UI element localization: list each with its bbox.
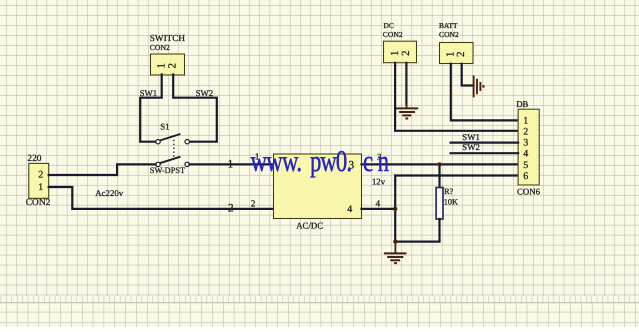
wire: AC/DC pin 4 to junction [362, 208, 396, 210]
svg-text:6: 6 [523, 171, 528, 182]
ground symbol (DC) [396, 104, 418, 119]
wire net SW2: SWITCH pin2 down-right to S1 upper pole [173, 75, 217, 142]
svg-text:2: 2 [251, 199, 256, 209]
pin number 3 (AC/DC, inside body) [348, 160, 354, 172]
net label 12v [372, 177, 386, 187]
net label Ac220v [95, 188, 123, 198]
svg-text:SW2: SW2 [196, 88, 214, 98]
wire: S1 lower pole to AC/DC pin 1 [189, 163, 273, 165]
switch S1 upper lever [160, 134, 181, 141]
connector SWITCH CON2 [150, 33, 186, 75]
connector DB CON6 part label [517, 187, 541, 197]
wire: DC pin1 to DB pin2 [395, 63, 518, 131]
pin number 1 (SWITCH CON2, rotated) [156, 63, 168, 69]
svg-text:SW2: SW2 [462, 142, 480, 152]
wire: DC pin2 to ground [405, 63, 407, 105]
wire: resistor R? bottom lead to ground node [395, 219, 439, 242]
module AC/DC label [296, 221, 323, 231]
svg-text:CON6: CON6 [517, 187, 541, 197]
switch S1 lower lever [160, 157, 181, 164]
svg-text:SWITCH: SWITCH [150, 33, 186, 43]
svg-text:2: 2 [38, 170, 43, 181]
resistor designator R? [444, 187, 453, 196]
connector DB CON6 designator [516, 99, 528, 109]
wire: DB pin 6 net, vertical to ground node [395, 176, 518, 242]
wire: 220 CON2 pin2 to S1 lower pole [49, 164, 156, 175]
wire net 12v: AC/DC pin 3 to DB pin 5 [362, 163, 519, 165]
connector DC CON2 designator [384, 21, 394, 30]
switch S1 designator [160, 122, 169, 132]
switch S1 upper pole contacts [156, 140, 190, 144]
pin number 2 (DC CON2, rotated) [400, 50, 412, 56]
svg-text:R?: R? [444, 187, 453, 196]
watermark www. pw0. cn [250, 145, 388, 178]
svg-text:1: 1 [228, 159, 234, 171]
pin number 3 (AC/DC, on wire) [377, 153, 382, 163]
net label SW2 [196, 88, 214, 98]
svg-text:2: 2 [167, 63, 179, 69]
connector BATT CON2 part label [439, 30, 459, 39]
svg-text:CON2: CON2 [383, 30, 403, 39]
net label SW1 (at DB) [462, 132, 480, 142]
svg-text:12v: 12v [372, 177, 386, 187]
pin number 1 (BATT CON2, rotated) [445, 52, 457, 58]
svg-text:220: 220 [27, 154, 41, 164]
switch S1 lower pole contacts [156, 162, 190, 166]
wire: resistor R? top lead [438, 164, 440, 187]
svg-text:SW1: SW1 [140, 88, 158, 98]
pin number 2 (220 CON2) [38, 170, 43, 181]
connector 220 CON2 part label [26, 198, 51, 208]
svg-text:S1: S1 [160, 122, 169, 132]
pin number 2 (AC/DC, on wire) [228, 202, 234, 214]
pin number 4 (AC/DC, inside body) [347, 204, 352, 215]
wire: DB pin 4 stub (net SW2) [451, 152, 518, 154]
svg-text:www.pw0.cn: www.pw0.cn [250, 145, 388, 178]
svg-text:CON2: CON2 [150, 43, 170, 52]
svg-text:SW-DPST: SW-DPST [150, 166, 185, 175]
wire: 220 CON2 pin1 to AC/DC pin 2 [49, 187, 274, 209]
wire: BATT pin1 to DB pin1 [451, 64, 518, 121]
pin number 1 (DC CON2, rotated) [389, 50, 401, 56]
pin number 2 (AC/DC, at body) [251, 199, 256, 209]
connector DB CON6 body [518, 109, 539, 185]
resistor R? body [436, 188, 443, 220]
svg-text:CON2: CON2 [26, 198, 51, 208]
switch S1 type label SW-DPST [150, 166, 185, 175]
svg-text:2: 2 [523, 126, 528, 137]
junction at 12v/resistor [437, 162, 441, 166]
connector DC CON2 body [384, 41, 417, 63]
svg-text:2: 2 [455, 52, 467, 58]
svg-text:4: 4 [523, 148, 528, 159]
junction at ground node [393, 239, 397, 243]
svg-text:1: 1 [38, 182, 43, 193]
svg-text:2: 2 [400, 50, 412, 56]
pin number 2 (SWITCH CON2, rotated) [167, 63, 179, 69]
svg-text:SW1: SW1 [462, 132, 480, 142]
connector DC CON2 part label [383, 30, 403, 39]
module U1 AC/DC body [274, 154, 362, 219]
resistor value 10K [444, 197, 458, 206]
wire: BATT pin2 to side ground [462, 64, 473, 86]
wire: DB pin 3 stub (net SW1) [451, 142, 518, 144]
pin number 1 (AC/DC, on wire) [228, 159, 234, 171]
connector BATT CON2 designator [439, 21, 458, 30]
junction at AC/DC pin4 [393, 207, 397, 211]
ground symbol (main) [384, 242, 407, 264]
svg-text:DB: DB [516, 99, 528, 109]
net label SW2 (at DB) [462, 142, 480, 152]
connector 220 CON2 designator [27, 154, 41, 164]
svg-text:CON2: CON2 [439, 30, 459, 39]
svg-text:DC: DC [384, 21, 394, 30]
svg-text:10K: 10K [444, 197, 458, 206]
ground symbol (BATT, sideways) [474, 75, 484, 97]
svg-text:4: 4 [347, 204, 352, 215]
pin number 1 (220 CON2) [38, 182, 43, 193]
svg-text:5: 5 [523, 160, 528, 171]
pin number 4 (AC/DC, on wire) [375, 199, 380, 209]
net label SW1 [140, 88, 158, 98]
svg-text:AC/DC: AC/DC [296, 221, 323, 231]
svg-text:3: 3 [523, 138, 528, 149]
svg-text:1: 1 [523, 115, 528, 126]
switch S1 gang dashed link [173, 140, 175, 158]
svg-text:Ac220v: Ac220v [95, 188, 123, 198]
connector BATT CON2 body [440, 43, 474, 64]
connector 220 CON2 body [29, 163, 49, 198]
pin number 2 (BATT CON2, rotated) [455, 52, 467, 58]
svg-text:BATT: BATT [439, 21, 458, 30]
pin numbers 1-6 (DB CON6) [523, 115, 528, 181]
pin number 1 (AC/DC, at body) [255, 153, 260, 163]
svg-text:2: 2 [228, 202, 234, 214]
wire net SW1: SWITCH pin1 down-left to S1 upper pole [140, 75, 162, 142]
